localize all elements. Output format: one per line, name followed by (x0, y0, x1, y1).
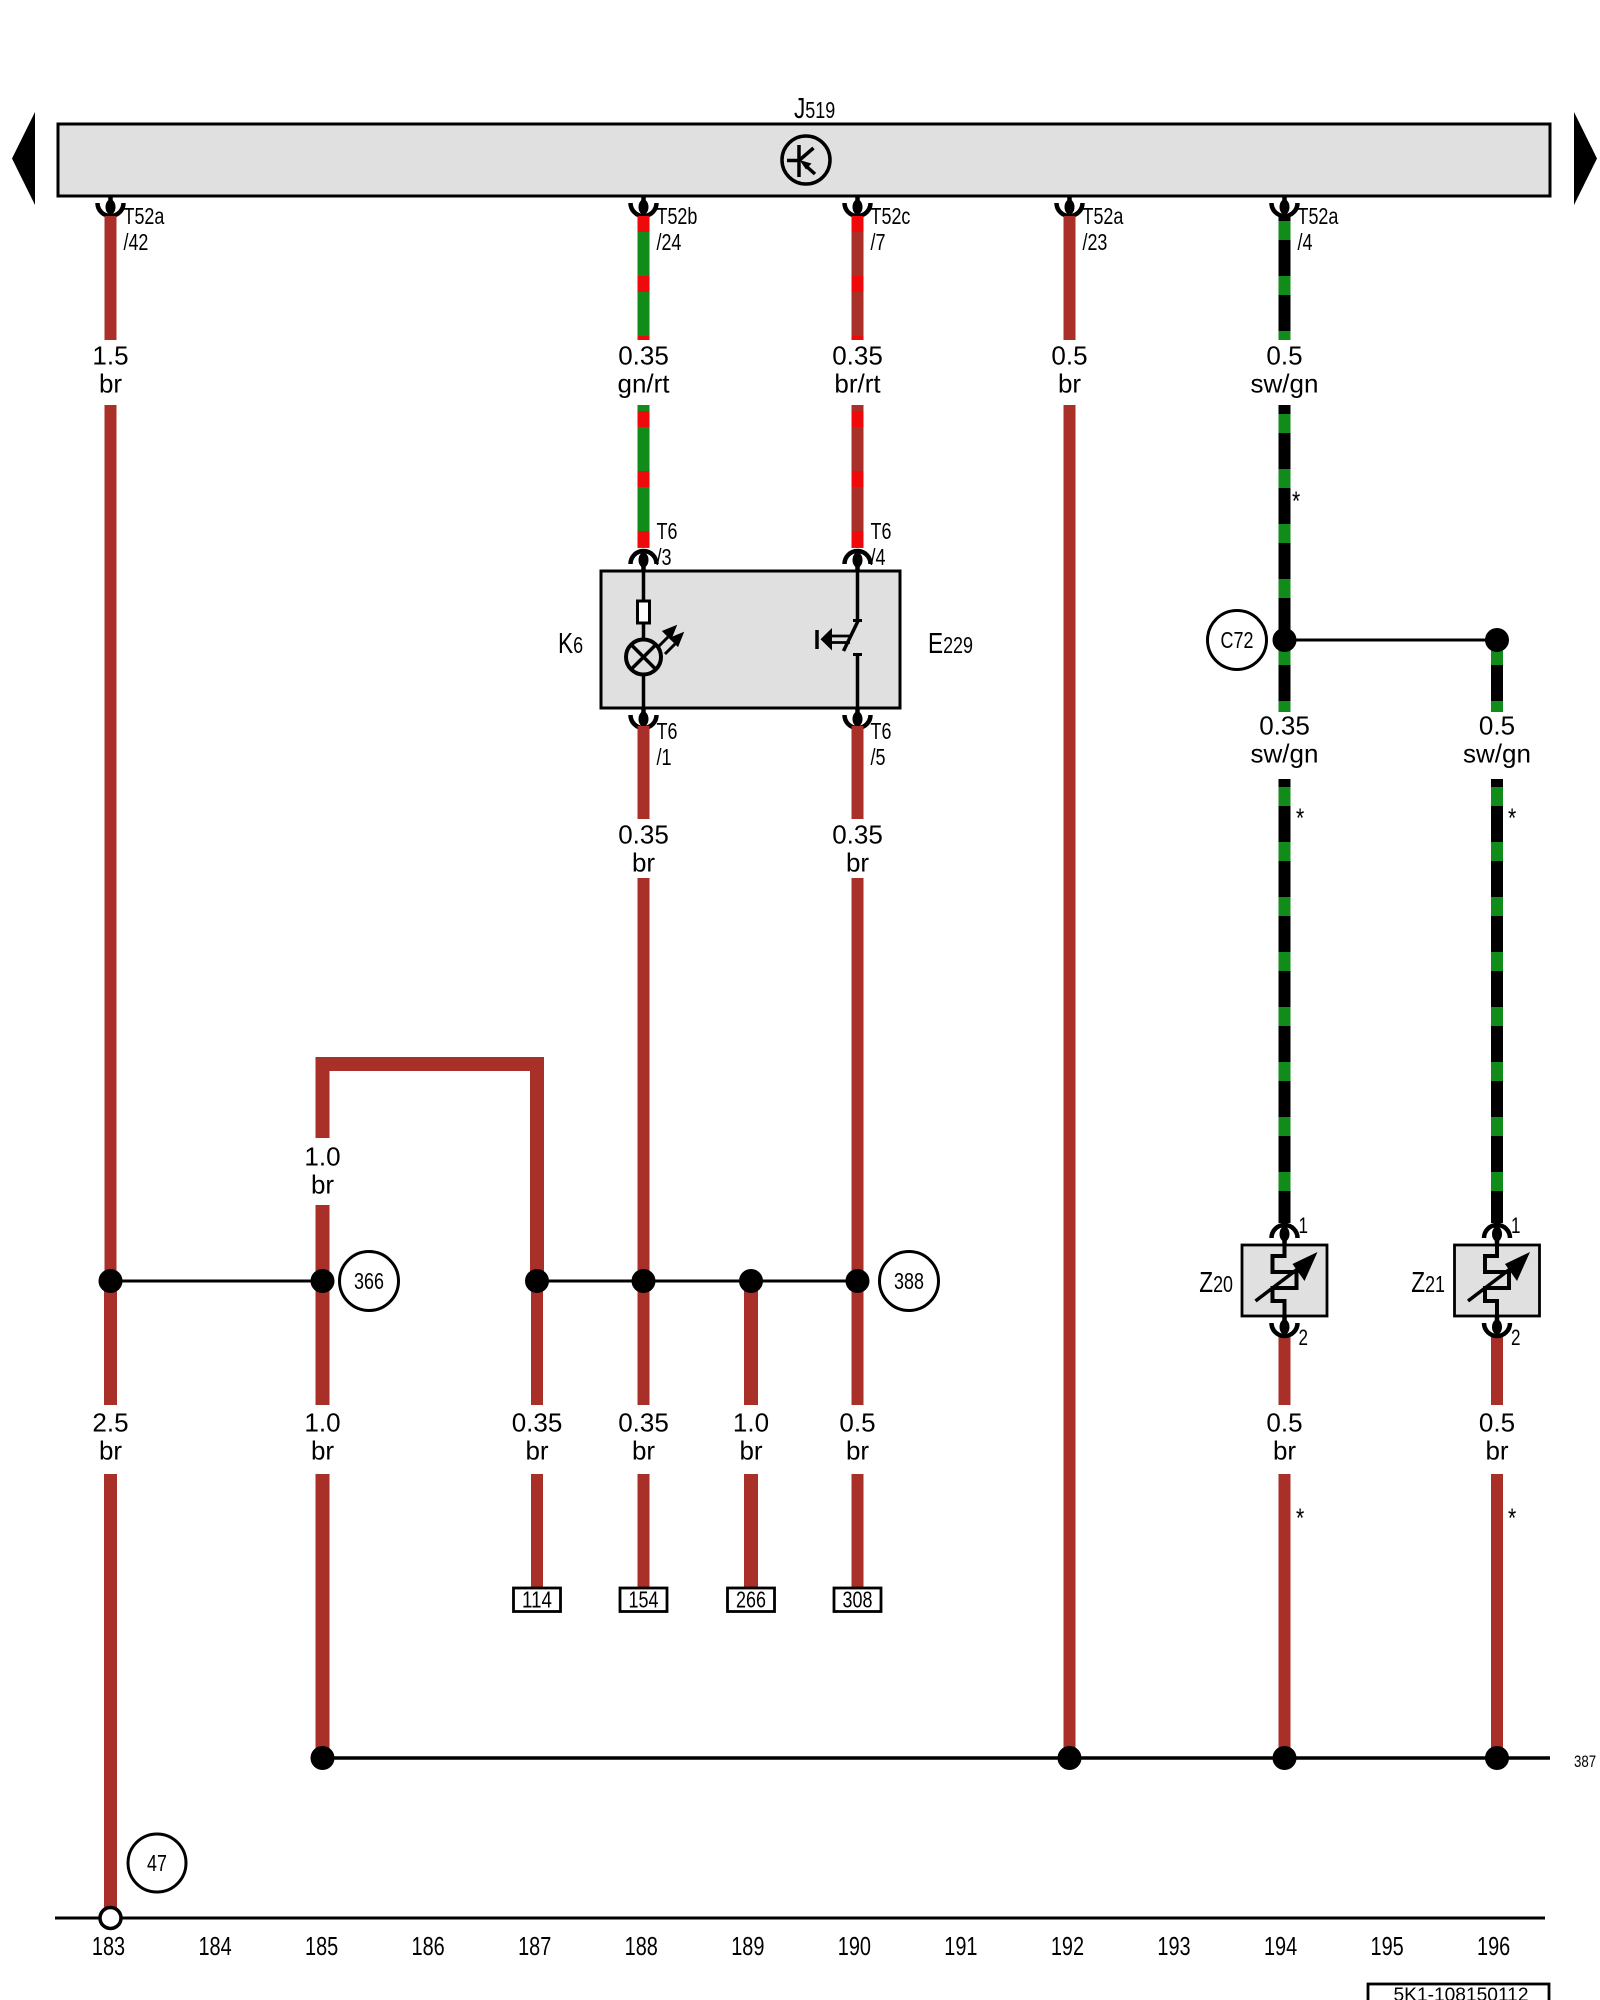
svg-text:187: 187 (518, 1933, 551, 1961)
pin T6/4 on E229 (845, 551, 871, 571)
wire 1.0 br below node 388 (x751) (744, 1287, 758, 1405)
ground connection 47 (128, 1834, 186, 1892)
component box housing K6 and E229 (601, 571, 900, 708)
svg-text:gn/rt: gn/rt (617, 369, 670, 399)
wire 0.35 sw/gn down to Z20 pin 1 (1279, 779, 1291, 1223)
wire 0.35 br below E229 (852, 726, 864, 819)
svg-text:T6: T6 (871, 518, 892, 544)
svg-text:br: br (632, 1436, 655, 1466)
svg-text:2: 2 (1299, 1325, 1309, 1350)
svg-text:6: 6 (573, 632, 583, 658)
ground connection 366 (340, 1252, 399, 1311)
svg-text:/7: /7 (871, 229, 886, 255)
svg-text:186: 186 (412, 1933, 445, 1961)
junction right end of C72 link (1485, 628, 1509, 652)
ground connection 388 (880, 1252, 939, 1311)
wire sw/gn below C72 link node (1491, 646, 1503, 712)
svg-text:T52a: T52a (124, 203, 165, 229)
svg-text:2: 2 (1511, 1325, 1521, 1350)
svg-text:21: 21 (1425, 1271, 1445, 1297)
svg-text:184: 184 (198, 1933, 231, 1961)
connection C72 (1208, 611, 1267, 670)
svg-text:189: 189 (731, 1933, 764, 1961)
wire 1.0 br below node 366 (316, 1287, 330, 1405)
svg-text:br: br (846, 1436, 869, 1466)
svg-text:br: br (525, 1436, 548, 1466)
pin T52a/23 on J519 (1057, 196, 1083, 216)
svg-text:1.0: 1.0 (733, 1408, 769, 1438)
wire 0.35 br down to node 388 (852, 878, 864, 1275)
svg-text:188: 188 (625, 1933, 658, 1961)
diagram part number box (1368, 1984, 1549, 2000)
svg-text:br: br (1273, 1436, 1296, 1466)
wire 1.0 br down to node 366 (316, 1205, 330, 1275)
svg-text:0.5: 0.5 (1479, 1408, 1515, 1438)
wire 1.0 br down to node 387 (316, 1474, 330, 1750)
svg-text:0.35: 0.35 (618, 1408, 669, 1438)
svg-text:br: br (311, 1436, 334, 1466)
svg-text:196: 196 (1477, 1933, 1510, 1961)
svg-text:Z: Z (1199, 1267, 1213, 1299)
svg-text:0.35: 0.35 (1259, 711, 1310, 741)
svg-text:/23: /23 (1083, 229, 1108, 255)
wire 0.35 br to ground 154 (638, 1474, 650, 1588)
svg-text:154: 154 (629, 1587, 659, 1613)
svg-text:br: br (99, 1436, 122, 1466)
svg-text:br: br (1485, 1436, 1508, 1466)
svg-text:183: 183 (92, 1933, 125, 1961)
svg-text:0.5: 0.5 (1479, 711, 1515, 741)
pin T52c/7 on J519 (845, 196, 871, 216)
wire 0.5 br upper segment (1064, 216, 1076, 340)
svg-text:/5: /5 (871, 744, 886, 770)
junction on wire br (x110) (99, 1269, 123, 1293)
push actuation arrow of E229 (817, 628, 850, 651)
svg-text:/4: /4 (1298, 229, 1313, 255)
svg-text:C72: C72 (1221, 627, 1254, 653)
junction node 387 (x1068) (1058, 1746, 1082, 1770)
svg-text:br: br (99, 369, 122, 399)
junction on wire br (x857) (846, 1269, 870, 1293)
pin 1 of Z21 (1484, 1225, 1510, 1245)
svg-text:308: 308 (843, 1587, 873, 1613)
ground link wire for node 388 (537, 1280, 858, 1283)
svg-text:T6: T6 (871, 718, 892, 744)
switch E229 (push button) (844, 571, 863, 708)
svg-text:sw/gn: sw/gn (1251, 369, 1319, 399)
svg-text:190: 190 (838, 1933, 871, 1961)
pin T6/1 on K6 (631, 708, 657, 728)
svg-text:/1: /1 (657, 744, 672, 770)
wire 0.5 br from Z21 to node 387 (1491, 1474, 1503, 1750)
junction node 387 (x1285) (1273, 1746, 1297, 1770)
junction on wire br (x537) (525, 1269, 549, 1293)
junction on sw/gn wire at C72 (1273, 628, 1297, 652)
svg-text:*: * (1508, 803, 1517, 833)
wire 0.35 br below node 366 (x537) (531, 1287, 543, 1405)
svg-text:195: 195 (1371, 1933, 1404, 1961)
pin 2 of Z20 (1272, 1316, 1298, 1336)
svg-text:T6: T6 (657, 718, 678, 744)
svg-text:1.0: 1.0 (304, 1142, 340, 1172)
left continuation arrow (12, 112, 35, 205)
svg-text:0.35: 0.35 (618, 820, 669, 850)
svg-text:0.35: 0.35 (832, 341, 883, 371)
svg-text:/24: /24 (657, 229, 682, 255)
svg-text:T52a: T52a (1298, 203, 1339, 229)
wire 0.35 br down to node 388 (638, 878, 650, 1275)
wire 0.35 br/rt lower segment (852, 405, 864, 548)
junction on wire br (x322) (311, 1269, 335, 1293)
wire 0.5 sw/gn down to node C72 (1279, 405, 1291, 634)
svg-text:br: br (311, 1170, 334, 1200)
ground point symbol at track 183 (100, 1908, 121, 1929)
svg-text:0.35: 0.35 (832, 820, 883, 850)
wire 0.5 br from Z20 to node 387 (1279, 1474, 1291, 1750)
ground terminal 266 (728, 1587, 775, 1613)
wire 0.5 br to ground 308 (852, 1474, 864, 1588)
pin T52a/42 on J519 (98, 196, 124, 216)
svg-text:K: K (558, 628, 574, 660)
wire 0.35 gn/rt lower segment (638, 405, 650, 548)
pin 1 of Z20 (1272, 1225, 1298, 1245)
ground terminal 154 (620, 1587, 667, 1613)
svg-text:T52c: T52c (871, 203, 911, 229)
svg-text:*: * (1296, 1503, 1305, 1533)
svg-text:185: 185 (305, 1933, 338, 1961)
wire 0.5 br below Z21 (1491, 1336, 1503, 1405)
ground link wire for node 366 (111, 1280, 323, 1283)
svg-text:194: 194 (1264, 1933, 1297, 1961)
junction node 387 (x1497) (1485, 1746, 1509, 1770)
svg-text:T6: T6 (657, 518, 678, 544)
svg-text:387: 387 (1574, 1752, 1596, 1771)
svg-text:47: 47 (147, 1850, 167, 1876)
junction node 387 (x322) (311, 1746, 335, 1770)
svg-text:193: 193 (1157, 1933, 1190, 1961)
svg-text:388: 388 (894, 1268, 924, 1294)
svg-text:0.5: 0.5 (1051, 341, 1087, 371)
pin T52a/4 on J519 (1272, 196, 1298, 216)
wire 0.35 br to ground 114 (531, 1474, 543, 1588)
svg-text:0.5: 0.5 (839, 1408, 875, 1438)
wire link at node C72 (1285, 639, 1498, 642)
wire 0.5 br down to node 387 (1064, 405, 1076, 1750)
svg-text:J: J (794, 93, 805, 125)
ground terminal 114 (514, 1587, 561, 1613)
control-unit symbol in circle (782, 136, 830, 184)
svg-text:E: E (928, 628, 943, 660)
pin 2 of Z21 (1484, 1316, 1510, 1336)
ground terminal 308 (834, 1587, 881, 1613)
wire 1.0 br jog horizontal segment (316, 1057, 545, 1071)
pin T52b/24 on J519 (631, 196, 657, 216)
wire 1.0 br to ground 266 (744, 1474, 758, 1588)
svg-text:Z: Z (1411, 1267, 1425, 1299)
svg-text:sw/gn: sw/gn (1251, 739, 1319, 769)
svg-text:5K1-108150112: 5K1-108150112 (1394, 1985, 1529, 2000)
svg-text:2.5: 2.5 (92, 1408, 128, 1438)
wire 0.35 br/rt upper segment (852, 216, 864, 340)
svg-text:191: 191 (944, 1933, 977, 1961)
svg-text:/4: /4 (871, 544, 886, 570)
right continuation arrow (1574, 112, 1597, 205)
svg-text:1.5: 1.5 (92, 341, 128, 371)
pin T6/3 on K6 (631, 551, 657, 571)
svg-text:0.5: 0.5 (1266, 1408, 1302, 1438)
wire 0.5 br below node 388 (852, 1287, 864, 1405)
svg-text:br/rt: br/rt (834, 369, 881, 399)
wire sw/gn below C72 node (1279, 646, 1291, 712)
svg-text:sw/gn: sw/gn (1463, 739, 1531, 769)
wire 1.0 br jog left vertical (316, 1057, 330, 1138)
wire 2.5 br below node 366 (104, 1287, 117, 1405)
svg-text:*: * (1296, 803, 1305, 833)
svg-text:192: 192 (1051, 1933, 1084, 1961)
junction on wire br (x751) (739, 1269, 763, 1293)
wire 1.0 br jog right vertical down to node 388 (530, 1057, 544, 1275)
svg-text:/42: /42 (124, 229, 149, 255)
bus bar J519 (onboard supply control unit) (58, 124, 1550, 196)
svg-text:0.5: 0.5 (1266, 341, 1302, 371)
LED radiation arrows of K6 (658, 628, 682, 655)
junction on wire br (x643) (632, 1269, 656, 1293)
svg-text:br: br (846, 848, 869, 878)
wire 0.5 sw/gn down to Z21 pin 1 (1491, 779, 1503, 1223)
svg-text:1.0: 1.0 (304, 1408, 340, 1438)
wire 0.5 sw/gn upper segment (1279, 216, 1291, 340)
svg-text:366: 366 (354, 1268, 384, 1294)
svg-text:1: 1 (1511, 1213, 1521, 1238)
svg-text:266: 266 (736, 1587, 766, 1613)
svg-text:114: 114 (522, 1587, 552, 1613)
wire 0.35 gn/rt upper segment (638, 216, 650, 340)
svg-text:T52a: T52a (1083, 203, 1124, 229)
svg-text:0.35: 0.35 (618, 341, 669, 371)
svg-text:br: br (1058, 369, 1081, 399)
ground link wire node 387 (323, 1756, 1551, 1760)
svg-text:519: 519 (805, 97, 835, 123)
heated washer jet Z21 (1455, 1240, 1540, 1330)
svg-text:T52b: T52b (657, 203, 698, 229)
current track numbers (92, 1933, 1510, 1961)
lamp K6 (bulb with LED arrows) (626, 571, 661, 708)
current track baseline (55, 1917, 1545, 1920)
pin T6/5 on E229 (845, 708, 871, 728)
svg-text:br: br (632, 848, 655, 878)
svg-text:0.35: 0.35 (512, 1408, 563, 1438)
wire br down to node 366 (105, 405, 117, 1275)
svg-text:*: * (1508, 1503, 1517, 1533)
wire 0.35 br below K6 (638, 726, 650, 819)
wire 2.5 br to ground point 183 (104, 1474, 117, 1908)
wire 1.5 br from T52a/42 (upper) (105, 216, 117, 340)
svg-text:br: br (739, 1436, 762, 1466)
svg-text:20: 20 (1213, 1271, 1233, 1297)
heated washer jet Z20 (1242, 1240, 1327, 1330)
svg-text:229: 229 (943, 632, 973, 658)
wire 0.35 br below node 388 (638, 1287, 650, 1405)
svg-text:*: * (1292, 486, 1301, 516)
svg-text:1: 1 (1299, 1213, 1309, 1238)
wire 0.5 br below Z20 (1279, 1336, 1291, 1405)
svg-text:/3: /3 (657, 544, 672, 570)
